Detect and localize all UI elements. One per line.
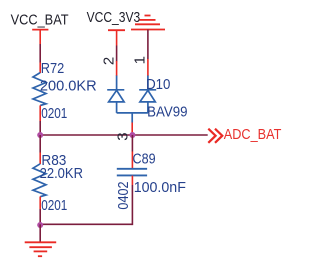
wire VCC_BAT to R72 <box>39 44 41 63</box>
wire ground stem <box>39 224 41 242</box>
svg-text:200.0KR: 200.0KR <box>40 78 97 95</box>
wire C89 to bottom net <box>131 185 133 225</box>
svg-text:22.0KR: 22.0KR <box>40 165 84 182</box>
capacitor C89 pin 1 <box>131 152 133 169</box>
resistor R72 pin 2 <box>39 105 41 121</box>
wire bottom horizontal net <box>40 223 132 225</box>
svg-text:1: 1 <box>131 56 148 64</box>
svg-text:BAV99: BAV99 <box>147 104 187 121</box>
power port VCC_BAT <box>11 12 69 45</box>
wire R83 to bottom net <box>39 209 41 224</box>
D10 internal connector <box>117 112 148 114</box>
wire main horizontal net <box>40 134 208 136</box>
resistor R1 pin 1 (R72 top pin) <box>39 63 41 74</box>
ground <box>25 242 57 256</box>
svg-text:100.0nF: 100.0nF <box>134 179 186 196</box>
junction node bottom <box>37 222 43 228</box>
wire node to C89 <box>131 135 133 152</box>
power port VCC_3V3 bar-stack (right) <box>131 16 165 42</box>
svg-text:0402: 0402 <box>115 181 132 209</box>
wire node to R83 <box>39 135 41 153</box>
pin 2 of D10 <box>116 61 118 76</box>
svg-text:VCC_BAT: VCC_BAT <box>11 12 69 29</box>
wire R72 to node <box>39 121 41 135</box>
svg-text:0201: 0201 <box>41 197 67 214</box>
wire left 3V3 stem <box>116 46 118 62</box>
svg-text:C89: C89 <box>133 151 156 168</box>
diode D10 left half <box>107 76 124 113</box>
resistor R83 <box>33 152 83 214</box>
svg-text:VCC_3V3: VCC_3V3 <box>87 9 141 26</box>
resistor R72 <box>33 60 97 122</box>
resistor R83 pin 2 <box>39 197 41 210</box>
svg-text:3: 3 <box>115 132 132 140</box>
junction node center <box>129 132 135 138</box>
wire right 3V3 stem <box>147 41 149 59</box>
svg-text:0201: 0201 <box>41 105 67 122</box>
capacitor C89 <box>115 151 186 210</box>
net label ADC_BAT <box>208 126 281 143</box>
svg-text:R72: R72 <box>41 60 65 77</box>
svg-text:ADC_BAT: ADC_BAT <box>224 126 282 143</box>
svg-text:D10: D10 <box>146 76 170 93</box>
junction node left <box>37 132 43 138</box>
pin 1 of D10 <box>147 59 149 76</box>
diode D10 right half <box>139 76 156 113</box>
pin 3 of D10 <box>131 123 133 136</box>
power port VCC_3V3 <box>87 9 141 45</box>
svg-text:2: 2 <box>100 57 117 65</box>
resistor R83 pin 1 <box>39 153 41 165</box>
capacitor C89 pin 2 <box>131 176 133 185</box>
